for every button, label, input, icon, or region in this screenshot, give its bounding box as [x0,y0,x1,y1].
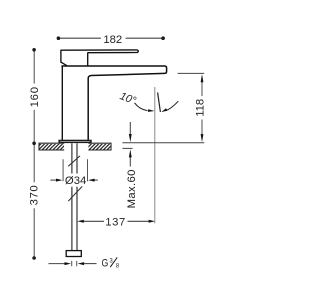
G3/8 extension ticks [72,261,77,266]
pipe break mark upper [68,156,80,166]
dimension 137 line [84,220,149,222]
dimension 118 line [201,81,203,136]
angle reference vertical line [154,87,156,223]
dimension 182 left dot [57,36,61,40]
dimension 370 line [33,143,35,256]
10 degree right leader arrow [166,101,179,111]
svg-text:137: 137 [105,216,126,228]
countertop hatching right [88,144,110,150]
countertop bottom line [39,149,111,151]
svg-text:118: 118 [195,99,207,117]
pipe break mark lower [68,186,82,201]
dimension O34 extension ticks [63,159,87,181]
faucet body left edge [61,66,63,140]
svg-text:370: 370 [29,185,41,206]
dimension 160 top dot [32,48,36,52]
dimension 370 middle dot [32,142,36,146]
10 degree left leader arrow [135,103,148,111]
Max.60 down arrow [129,122,131,135]
svg-text:160: 160 [29,86,41,107]
G3/8 left arrow [49,263,66,265]
spout outlet reference line [178,72,205,74]
supply pipe shank [72,143,77,250]
dimension 182 right dot [161,36,165,40]
dimension 370 bottom dot [32,256,36,260]
svg-text:Ø34: Ø34 [65,175,86,187]
dimension 118 up arrow [201,74,204,82]
10 degree tilted line [158,93,161,113]
Max.60 up arrow [129,157,131,167]
countertop hatching left [40,144,65,150]
faucet body top edge and spout [61,66,166,140]
countertop top line [39,142,111,144]
dimension O34 left arrow [50,179,57,181]
dimension 118 down arrow [201,134,204,142]
dimension O34 right arrow [94,179,98,181]
dimension 182 line left segment [58,37,101,39]
countertop right edge [110,143,112,151]
faucet handle base (cartridge collar) [61,50,88,66]
faucet base flange [58,140,91,143]
G3/8 connector nut [66,251,81,257]
countertop left edge [38,143,40,151]
svg-text:G: G [102,257,109,269]
svg-text:Max.60: Max.60 [126,169,138,208]
G3/8 right arrow [84,263,97,265]
dimension 160 line [33,50,35,143]
dimension 137 right arrow [149,220,156,223]
dimension 182 line right segment [126,37,164,39]
countertop top extension line [122,142,204,144]
svg-text:182: 182 [103,34,122,46]
faucet handle lever [61,50,138,53]
dimension 137 left arrow [77,220,84,223]
svg-text:8: 8 [116,262,120,270]
countertop bottom extension line [122,147,132,149]
